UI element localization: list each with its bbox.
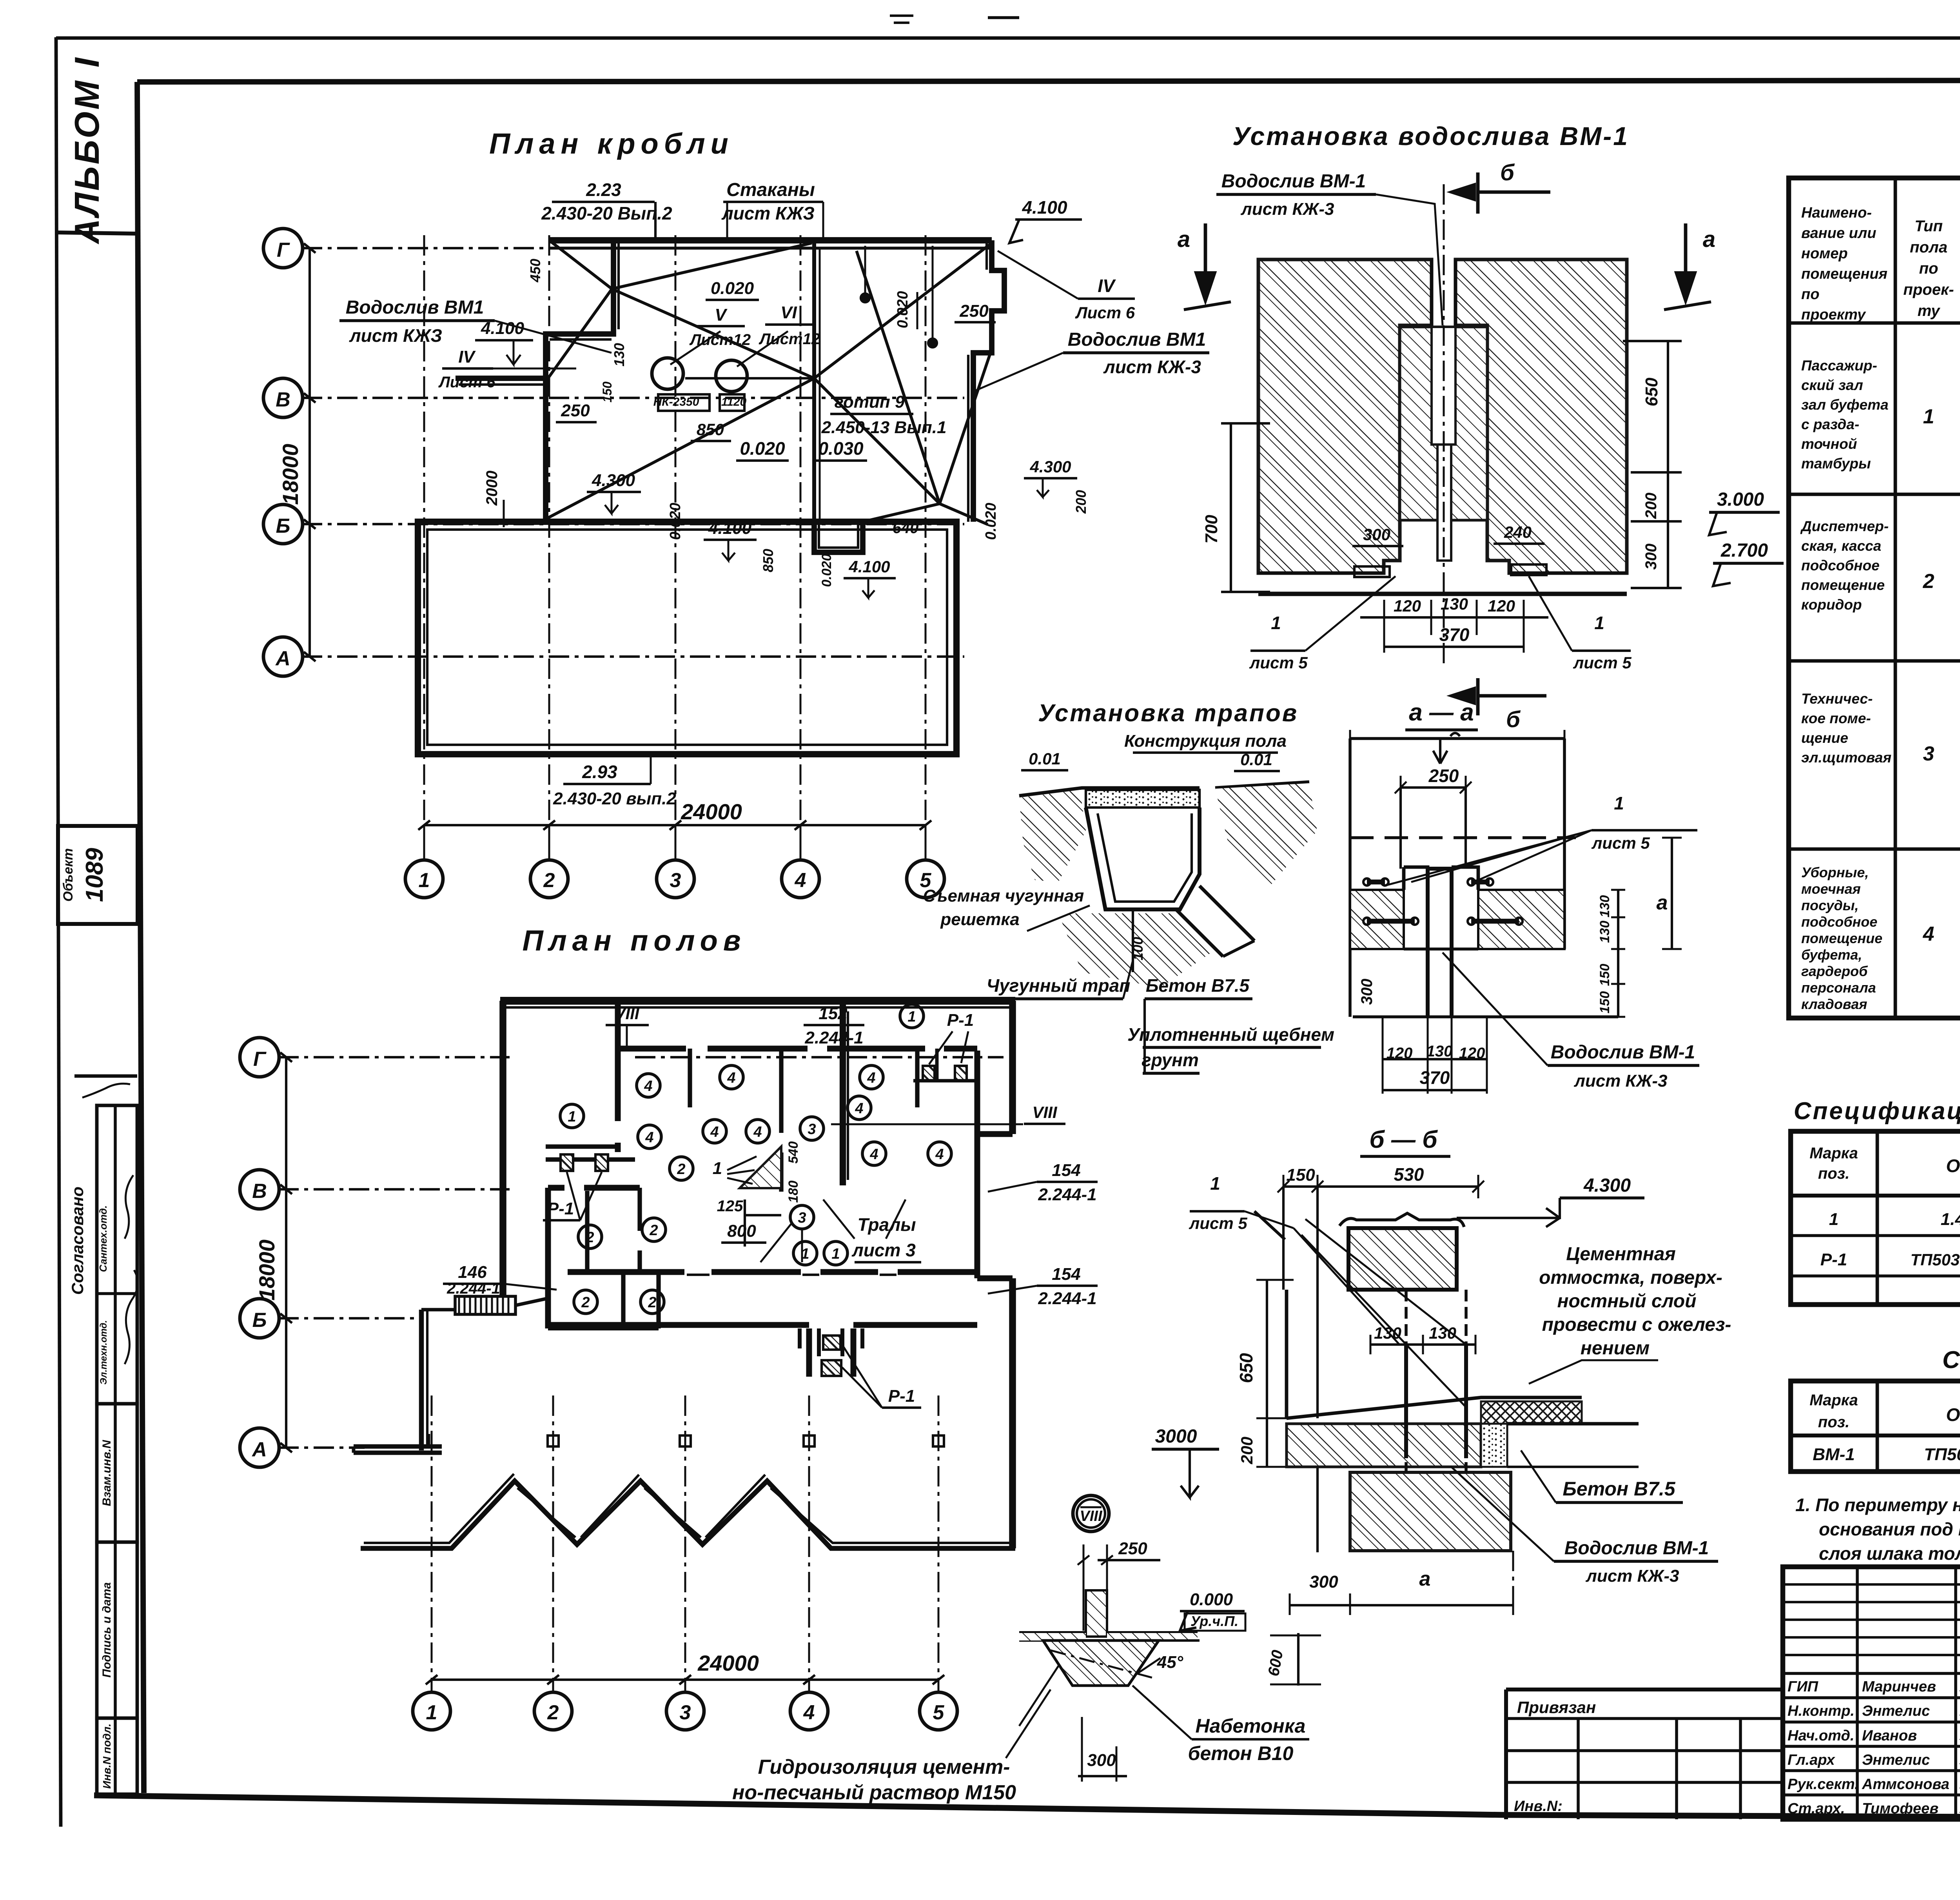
bb left boundary lines <box>1282 1187 1285 1290</box>
svg-text:ТП503-5-33.87 КЖЗ: ТП503-5-33.87 КЖЗ <box>1924 1445 1960 1464</box>
svg-text:Обозначение: Обозначение <box>1946 1156 1960 1176</box>
svg-text:по: по <box>1801 286 1819 303</box>
svg-text:лист КЖЗ: лист КЖЗ <box>721 203 815 223</box>
svg-text:ту: ту <box>1918 302 1941 319</box>
svg-text:2.244-1: 2.244-1 <box>804 1028 863 1047</box>
svg-text:2: 2 <box>543 869 555 892</box>
svg-text:б: б <box>1500 160 1515 185</box>
floor door sills H4 <box>687 1274 897 1276</box>
trap left ground hatch <box>1019 790 1086 882</box>
floor hall south wall segments <box>548 1322 977 1328</box>
svg-text:пола: пола <box>1910 239 1947 256</box>
svg-text:2: 2 <box>581 1294 590 1311</box>
svg-text:130: 130 <box>1426 1043 1453 1060</box>
title block outer <box>1783 1567 1960 1819</box>
svg-text:1089: 1089 <box>81 848 108 902</box>
svg-text:Б: Б <box>276 515 290 537</box>
grid circle A roof <box>263 637 303 676</box>
svg-text:3: 3 <box>798 1210 806 1226</box>
floor right inset walls <box>977 1134 1013 1278</box>
svg-text:В: В <box>276 388 290 411</box>
svg-text:250: 250 <box>959 301 989 321</box>
bb left ground break <box>1254 1211 1285 1239</box>
svg-text:грунт: грунт <box>1142 1050 1199 1070</box>
detail VIII circle <box>1073 1495 1109 1532</box>
svg-text:2.450-13 Вып.1: 2.450-13 Вып.1 <box>821 418 947 437</box>
floor dim 24000 <box>432 1679 938 1681</box>
grid line G roof <box>302 247 988 249</box>
svg-text:2.93: 2.93 <box>582 762 617 782</box>
vm1 arrow a left <box>1204 223 1207 294</box>
svg-text:650: 650 <box>1642 377 1661 406</box>
svg-text:3000: 3000 <box>1155 1426 1197 1447</box>
svg-text:2.244-1: 2.244-1 <box>1038 1289 1096 1308</box>
svg-text:Привязан: Привязан <box>1517 1698 1596 1717</box>
svg-text:850: 850 <box>697 420 724 439</box>
svg-text:Марка: Марка <box>1809 1145 1858 1162</box>
svg-text:3.000: 3.000 <box>1717 489 1764 510</box>
svg-text:Рук.сект.: Рук.сект. <box>1788 1776 1859 1793</box>
svg-text:370: 370 <box>1439 624 1470 645</box>
svg-text:2.430-20 вып.2: 2.430-20 вып.2 <box>553 789 676 808</box>
svg-text:Бетон В7.5: Бетон В7.5 <box>1146 975 1250 996</box>
svg-text:100: 100 <box>1130 937 1146 960</box>
svg-text:0.020: 0.020 <box>819 553 834 587</box>
svg-text:4: 4 <box>727 1070 735 1086</box>
svg-text:кое поме-: кое поме- <box>1801 710 1871 726</box>
svg-text:Иванов: Иванов <box>1862 1728 1917 1744</box>
svg-text:530: 530 <box>1394 1164 1424 1185</box>
svg-text:Ур.ч.П.: Ур.ч.П. <box>1191 1613 1238 1629</box>
svg-text:В: В <box>252 1180 267 1203</box>
svg-text:Маринчев: Маринчев <box>1862 1679 1936 1695</box>
svg-text:основания под конструкцию пола: основания под конструкцию пола на ширину… <box>1819 1519 1960 1539</box>
svg-text:IV: IV <box>458 347 476 367</box>
stack circle 1 <box>652 358 683 389</box>
svg-text:Стаканы: Стаканы <box>726 180 815 200</box>
svg-text:лист 5: лист 5 <box>1591 834 1650 852</box>
grid circle A floor <box>240 1428 279 1467</box>
svg-text:НК-2350: НК-2350 <box>653 396 699 408</box>
svg-text:Водослив ВМ-1: Водослив ВМ-1 <box>1551 1042 1695 1063</box>
svg-text:Обозначение: Обозначение <box>1946 1405 1960 1425</box>
svg-text:300: 300 <box>1642 544 1660 570</box>
svg-text:154: 154 <box>1052 1161 1080 1180</box>
svg-text:Цементная: Цементная <box>1566 1244 1676 1265</box>
bb bottom block hatched <box>1350 1472 1511 1551</box>
svg-text:лист КЖ-3: лист КЖ-3 <box>1573 1071 1667 1091</box>
aa bottom line <box>1353 1015 1618 1018</box>
svg-text:4: 4 <box>753 1124 762 1140</box>
svg-text:слоя шлака толщиной 0,15 м.: слоя шлака толщиной 0,15 м. <box>1819 1543 1960 1564</box>
svg-text:4: 4 <box>803 1701 815 1724</box>
svg-text:А: А <box>251 1438 267 1461</box>
outer border left <box>56 37 61 1827</box>
bb crosshatch strip <box>1481 1401 1582 1424</box>
svg-text:Б: Б <box>252 1309 267 1332</box>
svg-text:250: 250 <box>561 401 590 420</box>
svg-text:Нач.отд.: Нач.отд. <box>1788 1728 1854 1744</box>
floor mid walls left <box>548 1185 640 1191</box>
vm1 section arrow b top <box>1478 172 1550 214</box>
trap ground surface lines <box>1019 782 1309 796</box>
svg-text:лист КЖЗ: лист КЖЗ <box>349 325 442 346</box>
svg-text:1: 1 <box>831 1246 840 1262</box>
svg-text:помещение: помещение <box>1801 577 1885 593</box>
svg-text:А: А <box>275 647 290 670</box>
svg-text:а: а <box>1703 227 1715 252</box>
svg-text:0.020: 0.020 <box>895 291 911 328</box>
svg-text:1: 1 <box>713 1159 722 1178</box>
svg-text:4: 4 <box>710 1124 719 1140</box>
floor wall left outer <box>499 1001 506 1298</box>
svg-text:Водослив ВМ-1: Водослив ВМ-1 <box>1221 171 1366 192</box>
svg-text:Съемная чугунная: Съемная чугунная <box>923 886 1084 906</box>
vm1 grate symbols <box>1354 566 1390 577</box>
svg-text:2: 2 <box>648 1294 656 1311</box>
svg-text:IV: IV <box>1098 276 1116 296</box>
aa dim right inner <box>1617 890 1619 1017</box>
svg-text:640: 640 <box>893 519 919 537</box>
svg-text:Спецификация водосливов: Спецификация водосливов <box>1942 1347 1960 1374</box>
floor entrance grate 146 <box>455 1296 515 1314</box>
svg-text:моечная: моечная <box>1801 881 1861 897</box>
svg-text:проекту: проекту <box>1801 307 1866 323</box>
svg-text:подсобное: подсобное <box>1801 557 1880 573</box>
floor column circles <box>413 1692 450 1730</box>
svg-text:300: 300 <box>1087 1751 1116 1770</box>
grid line B floor <box>278 1317 419 1319</box>
svg-text:4.300: 4.300 <box>1583 1175 1631 1196</box>
svg-text:Р-1: Р-1 <box>547 1199 574 1218</box>
svg-text:2000: 2000 <box>483 471 501 506</box>
svg-text:Установка водослива ВМ-1: Установка водослива ВМ-1 <box>1232 122 1629 151</box>
svg-text:помещение: помещение <box>1801 930 1882 946</box>
svg-text:24000: 24000 <box>681 799 742 824</box>
svg-text:0.01: 0.01 <box>1029 749 1061 768</box>
svg-text:с разда-: с разда- <box>1801 416 1859 432</box>
svg-text:План полов: План полов <box>522 924 746 957</box>
svg-text:лист 5: лист 5 <box>1249 653 1308 672</box>
floor interior corridor wall H2 <box>618 1046 977 1052</box>
svg-text:1: 1 <box>907 1009 916 1025</box>
floor north entrance P-1 grates <box>923 1066 935 1081</box>
floor interior verticals mid <box>587 1188 640 1272</box>
svg-text:2.700: 2.700 <box>1720 540 1768 561</box>
svg-text:800: 800 <box>727 1221 756 1241</box>
svg-text:4: 4 <box>869 1146 878 1163</box>
roof notch protrusion <box>814 522 863 552</box>
svg-text:поз.: поз. <box>1818 1165 1849 1182</box>
svg-text:0.020: 0.020 <box>983 503 999 540</box>
svg-text:4.100: 4.100 <box>708 519 752 538</box>
vm1 right wall block hatched <box>1455 260 1627 573</box>
column grid verticals roof <box>423 235 425 858</box>
svg-text:18000: 18000 <box>278 444 303 505</box>
svg-text:24000: 24000 <box>697 1651 759 1675</box>
aa dim 370 bottom <box>1383 1089 1487 1091</box>
signature squiggles <box>125 1270 138 1364</box>
svg-text:1. По периметру наружных стен: 1. По периметру наружных стен предусмотр… <box>1795 1495 1960 1515</box>
floor vestibule entrance <box>809 1328 853 1377</box>
svg-text:4.100: 4.100 <box>481 319 524 338</box>
svg-text:0.020: 0.020 <box>740 438 785 459</box>
svg-text:2.244-1: 2.244-1 <box>1038 1185 1096 1204</box>
svg-text:700: 700 <box>1202 515 1221 544</box>
svg-text:ВМ-1: ВМ-1 <box>1813 1445 1855 1464</box>
svg-text:ГИП: ГИП <box>1788 1679 1818 1695</box>
svg-text:щение: щение <box>1801 730 1848 746</box>
soglasovano line <box>74 1074 137 1078</box>
svg-text:650: 650 <box>1236 1353 1256 1383</box>
svg-text:Н.контр.: Н.контр. <box>1788 1703 1855 1719</box>
svg-text:лист 5: лист 5 <box>1573 653 1632 672</box>
svg-text:300: 300 <box>1309 1572 1338 1591</box>
svg-text:отмостка, поверх-: отмостка, поверх- <box>1539 1267 1722 1288</box>
aa leader fan <box>1384 830 1592 886</box>
aa collar plates <box>1404 867 1428 890</box>
inner frame bottom <box>94 1795 1960 1819</box>
svg-text:1: 1 <box>1210 1173 1220 1194</box>
grid circle G floor <box>240 1038 279 1077</box>
svg-text:370: 370 <box>1420 1067 1450 1088</box>
svg-text:2.244-1: 2.244-1 <box>446 1280 500 1297</box>
detail VIII pit hatched <box>1043 1640 1159 1686</box>
svg-text:1: 1 <box>568 1109 576 1125</box>
roof upper outline <box>549 237 992 243</box>
bb leader fan <box>1294 1219 1466 1407</box>
svg-text:поз.: поз. <box>1818 1414 1849 1431</box>
floor dim 18000 <box>285 1057 287 1448</box>
svg-text:Лист 6: Лист 6 <box>438 374 495 391</box>
svg-text:Г: Г <box>253 1048 267 1071</box>
svg-text:Инв.N:: Инв.N: <box>1514 1798 1563 1815</box>
stamp boxes santeh <box>97 1105 137 1404</box>
svg-text:нением: нением <box>1581 1338 1650 1359</box>
svg-text:эл.щитовая: эл.щитовая <box>1801 749 1891 766</box>
svg-text:провести с ожелез-: провести с ожелез- <box>1542 1314 1731 1335</box>
vm1 left wall block hatched <box>1258 260 1432 573</box>
svg-text:Согласовано: Согласовано <box>68 1187 87 1295</box>
top edge marks <box>890 16 913 23</box>
floor interior verticals top <box>615 1004 621 1152</box>
aa anchor ovals <box>1367 880 1385 885</box>
svg-text:Инв.N подл.: Инв.N подл. <box>101 1724 113 1789</box>
svg-text:130: 130 <box>611 343 627 367</box>
svg-text:4: 4 <box>867 1070 875 1086</box>
svg-text:2.430-20 Вып.2: 2.430-20 Вып.2 <box>541 203 672 223</box>
svg-text:Взам.инв.N: Взам.инв.N <box>100 1439 113 1506</box>
svg-text:5: 5 <box>933 1701 945 1724</box>
svg-text:200: 200 <box>1238 1437 1256 1464</box>
svg-text:45°: 45° <box>1157 1653 1183 1672</box>
svg-text:Р-1: Р-1 <box>888 1386 915 1406</box>
svg-text:1: 1 <box>1594 613 1604 633</box>
svg-text:Гл.арх: Гл.арх <box>1788 1752 1835 1768</box>
svg-text:номер: номер <box>1801 245 1848 262</box>
svg-text:130: 130 <box>1597 921 1612 943</box>
aa outer verticals <box>1348 739 1352 1017</box>
svg-text:Эл.техн.отд.: Эл.техн.отд. <box>98 1320 109 1385</box>
svg-text:300: 300 <box>1363 525 1390 544</box>
svg-text:150: 150 <box>1597 964 1612 986</box>
svg-text:150: 150 <box>1286 1165 1315 1185</box>
svg-text:1: 1 <box>1829 1210 1838 1229</box>
svg-text:200: 200 <box>1073 490 1089 514</box>
bb rubble pocket <box>1481 1424 1507 1467</box>
vm1 drain element hatched <box>1400 327 1487 520</box>
svg-text:лист 5: лист 5 <box>1189 1214 1247 1232</box>
floor room circles 1 <box>560 1104 584 1128</box>
svg-text:120: 120 <box>1488 597 1515 615</box>
svg-text:250: 250 <box>1118 1539 1147 1558</box>
vm1 bottom dims 120 130 120 <box>1383 600 1385 635</box>
svg-text:VIII: VIII <box>1032 1103 1057 1121</box>
bb pipe verticals <box>1406 1290 1466 1472</box>
svg-text:решетка: решетка <box>940 910 1019 929</box>
svg-text:VI: VI <box>780 303 797 322</box>
floor main mid wall H4 <box>568 1269 977 1275</box>
svg-text:лист 3: лист 3 <box>851 1240 916 1260</box>
roof right edge jogs <box>973 240 1004 522</box>
svg-text:лист КЖ-3: лист КЖ-3 <box>1585 1566 1679 1586</box>
svg-text:Энтелис: Энтелис <box>1862 1752 1930 1768</box>
title block mini grid rows <box>1783 1583 1960 1586</box>
grid line B roof <box>302 523 964 525</box>
svg-text:лист КЖ-3: лист КЖ-3 <box>1103 357 1201 377</box>
svg-text:2: 2 <box>1923 570 1935 593</box>
svg-text:Марка: Марка <box>1809 1392 1858 1409</box>
svg-text:154: 154 <box>1052 1265 1080 1284</box>
svg-text:4: 4 <box>645 1129 653 1146</box>
svg-text:Р-1: Р-1 <box>1820 1250 1847 1269</box>
svg-text:Набетонка: Набетонка <box>1196 1715 1306 1737</box>
svg-text:0.030: 0.030 <box>818 438 864 459</box>
floor room circle 3 upper <box>800 1117 824 1140</box>
svg-text:VIII: VIII <box>1080 1508 1102 1524</box>
svg-text:Бетон В7.5: Бетон В7.5 <box>1563 1478 1675 1500</box>
svg-text:2: 2 <box>585 1229 594 1246</box>
svg-text:но-песчаный раствор М150: но-песчаный раствор М150 <box>732 1781 1016 1804</box>
svg-text:130: 130 <box>1441 595 1468 613</box>
aa floor slab hatched right <box>1478 890 1564 949</box>
roof dim 24000 <box>424 824 926 826</box>
svg-text:Лист 6: Лист 6 <box>1075 303 1135 322</box>
svg-text:2: 2 <box>649 1222 658 1239</box>
svg-text:Г: Г <box>277 239 290 261</box>
svg-text:кладовая: кладовая <box>1801 996 1867 1012</box>
svg-text:Пассажир-: Пассажир- <box>1801 357 1877 374</box>
svg-text:1: 1 <box>426 1701 437 1724</box>
svg-text:точной: точной <box>1801 436 1857 452</box>
svg-text:3: 3 <box>1923 742 1935 765</box>
svg-text:1: 1 <box>419 869 430 892</box>
svg-text:Конструкция пола: Конструкция пола <box>1124 731 1287 751</box>
svg-text:130: 130 <box>1597 895 1612 918</box>
svg-text:Чугунный трап: Чугунный трап <box>987 975 1131 996</box>
svg-text:гардероб: гардероб <box>1801 963 1868 979</box>
svg-text:150: 150 <box>600 381 614 403</box>
svg-text:АЛЬБОМ I: АЛЬБОМ I <box>67 56 106 244</box>
svg-text:Техничес-: Техничес- <box>1801 691 1873 707</box>
svg-text:а: а <box>1178 227 1190 252</box>
floor wall right outer <box>1009 1001 1016 1548</box>
svg-text:Атмсонова: Атмсонова <box>1862 1776 1949 1793</box>
podpis i data box <box>97 1542 137 1718</box>
aa floor slab hatched left <box>1350 890 1404 949</box>
svg-text:Наимено-: Наимено- <box>1801 205 1872 221</box>
svg-text:152: 152 <box>818 1004 848 1023</box>
svg-text:4: 4 <box>935 1146 944 1163</box>
detail VIII floor line <box>1019 1631 1198 1635</box>
svg-text:3: 3 <box>670 869 681 892</box>
svg-text:150: 150 <box>1597 991 1612 1014</box>
trap pipe diagonal <box>1176 886 1254 956</box>
vzam inv box <box>97 1404 137 1542</box>
title block left privyazan <box>1506 1688 1783 1691</box>
bb sloped screed line <box>1287 1397 1582 1418</box>
grid line V floor <box>278 1188 510 1190</box>
floor corridor wall V4 thick <box>840 1004 846 1185</box>
spec vodoslivov frame <box>1791 1381 1960 1472</box>
detail VIII leader left <box>1019 1666 1058 1726</box>
svg-text:0.020: 0.020 <box>667 503 684 540</box>
svg-text:200: 200 <box>1642 493 1660 519</box>
stack leader lines <box>670 331 720 365</box>
svg-text:4: 4 <box>644 1078 652 1094</box>
grid circle V floor <box>240 1170 279 1209</box>
svg-text:2: 2 <box>547 1701 559 1724</box>
svg-text:Лист12: Лист12 <box>759 330 820 348</box>
floor west lobby walls <box>546 1144 618 1149</box>
svg-text:Тимофеев: Тимофеев <box>1862 1800 1938 1817</box>
svg-text:зал буфета: зал буфета <box>1801 397 1889 413</box>
svg-text:2.23: 2.23 <box>586 180 621 200</box>
svg-text:0.000: 0.000 <box>1190 1590 1233 1609</box>
svg-text:450: 450 <box>527 259 543 283</box>
svg-text:а: а <box>1419 1568 1431 1590</box>
svg-text:4: 4 <box>855 1100 863 1117</box>
floor room circles 2 <box>670 1157 693 1180</box>
floor zigzag canopy <box>361 1481 1015 1548</box>
svg-text:проек-: проек- <box>1903 281 1954 298</box>
svg-text:Тралы: Тралы <box>857 1214 916 1235</box>
bb slab hatched <box>1287 1424 1481 1467</box>
svg-text:4.300: 4.300 <box>592 471 635 490</box>
vm1 centerline <box>1443 184 1445 666</box>
grid circle B floor <box>240 1299 279 1338</box>
title block staff rows <box>1783 1672 1960 1675</box>
svg-text:4.300: 4.300 <box>1029 457 1071 476</box>
album label box <box>56 232 137 234</box>
svg-text:подсобное: подсобное <box>1801 914 1877 930</box>
svg-text:1: 1 <box>1271 613 1281 633</box>
svg-text:Тип: Тип <box>1915 218 1943 235</box>
svg-text:а: а <box>1657 891 1668 914</box>
svg-text:а — а: а — а <box>1409 699 1474 726</box>
svg-text:0.01: 0.01 <box>1240 750 1272 769</box>
explication table frame <box>1789 178 1960 1018</box>
svg-text:ский зал: ский зал <box>1801 377 1863 393</box>
svg-text:Установка трапов: Установка трапов <box>1038 700 1298 727</box>
outer border top <box>56 36 1960 40</box>
svg-text:Сантех.отд.: Сантех.отд. <box>97 1205 109 1272</box>
floor plan outer walls <box>500 997 1015 1005</box>
floor stairs hatch <box>740 1147 781 1188</box>
object 1089 box <box>58 826 138 924</box>
svg-text:146: 146 <box>458 1263 487 1282</box>
svg-text:4.100: 4.100 <box>1022 197 1067 218</box>
